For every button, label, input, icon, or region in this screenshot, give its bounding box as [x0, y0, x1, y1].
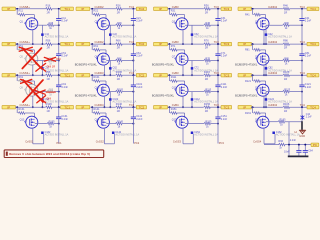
junction node at cap column r3c2: [132, 74, 134, 76]
svg-text:R141: R141: [94, 108, 101, 111]
svg-text:TC2: TC2: [139, 42, 145, 46]
ground bar: [288, 155, 309, 157]
wire net row 3 cell 2: [90, 74, 115, 76]
svg-text:Q16: Q16: [255, 119, 260, 122]
port IP3 (input, row 3): [2, 73, 16, 77]
svg-text:TC3: TC3: [214, 103, 220, 107]
transistor Q3 (N-MOSFET): [176, 18, 188, 30]
resistor R131 (gate): [18, 112, 25, 114]
transistor Q9 (N-MOSFET): [26, 84, 38, 96]
svg-text:2.2nF: 2.2nF: [306, 117, 312, 119]
svg-text:R75: R75: [205, 57, 210, 60]
port TC3 (output): [221, 105, 232, 109]
transistor Q2 (N-MOSFET): [97, 18, 109, 30]
junction node at cap column r1c2: [132, 8, 134, 10]
svg-text:PC3: PC3: [219, 141, 225, 145]
svg-text:R61: R61: [94, 45, 99, 48]
wire cap column to bottom: [132, 119, 134, 144]
svg-text:ACT/DO INSTALL 1A: ACT/DO INSTALL 1A: [268, 36, 292, 39]
svg-text:Q15: Q15: [172, 119, 177, 122]
svg-text:IP: IP: [7, 42, 10, 46]
svg-text:R105: R105: [117, 89, 124, 92]
red X over jumper J9 (DNI): [37, 96, 46, 103]
transistor Q1 (N-MOSFET): [26, 18, 38, 30]
resistor R115 value 1k (drain): [203, 90, 210, 93]
resistor R106 value 1R (series): [115, 74, 122, 77]
svg-text:2.2nF: 2.2nF: [136, 55, 143, 58]
wire net row 1 cell 1: [15, 8, 45, 10]
svg-text:PC2: PC2: [134, 141, 140, 145]
svg-text:R96: R96: [46, 70, 51, 74]
annotation note box (red): [4, 150, 104, 158]
junction cap column at next row: [217, 74, 219, 76]
svg-text:TC2: TC2: [129, 5, 135, 9]
resistor R166 value 1R (series): [283, 106, 290, 109]
svg-text:IP: IP: [159, 7, 162, 11]
junction marker column at next row: [265, 74, 267, 76]
resistor R155 value 1k (drain): [203, 122, 210, 125]
resistor R51 (gate): [18, 49, 25, 52]
jumper J2 (no-install marker square): [109, 33, 112, 36]
capacitor C121: [299, 84, 304, 86]
wire source of Q9: [32, 96, 34, 108]
junction cap column at next row: [132, 43, 134, 45]
svg-text:DNI: DNI: [47, 97, 52, 101]
transistor Q4 (N-MOSFET): [257, 18, 269, 30]
port TC1 (output): [61, 7, 74, 11]
junction source at next row: [32, 74, 34, 76]
junction node at cap column r4c3: [217, 106, 219, 108]
jumper J4 (no-install marker square): [265, 33, 268, 36]
jumper J5 (no-install marker square): [41, 67, 44, 70]
wire marker column: [191, 61, 193, 76]
svg-text:Q2: Q2: [95, 20, 99, 23]
junction node at cap column r2c3: [217, 43, 219, 45]
svg-text:Q14: Q14: [95, 119, 100, 122]
svg-text:TC3: TC3: [223, 7, 229, 11]
svg-text:CvSS2: CvSS2: [96, 139, 105, 143]
svg-text:CvSS3+: CvSS3+: [20, 71, 31, 75]
capacitor C11: [56, 18, 61, 20]
svg-text:ACT/DO INSTALL 1A: ACT/DO INSTALL 1A: [194, 134, 218, 137]
wire drain of Q12: [266, 91, 282, 93]
capacitor C131: [56, 116, 61, 118]
port IP (input of next cell): [238, 105, 252, 109]
wire capacitor column upper: [301, 9, 303, 19]
wire drain of Q6: [106, 60, 115, 62]
resistor R31 (gate): [170, 13, 177, 16]
svg-text:Q5: Q5: [20, 56, 24, 59]
junction node at cap column r2c4: [301, 43, 303, 45]
wire to capacitor column: [122, 60, 133, 62]
wire net row 2 cell 4: [251, 43, 283, 45]
svg-text:R36: R36: [204, 3, 209, 7]
svg-text:CvSS3: CvSS3: [173, 139, 182, 143]
wire capacitor column lower: [301, 87, 303, 108]
wire vertical from drain node to ground bar: [288, 122, 290, 157]
wire bottom stub: [104, 143, 114, 145]
capacitor C51: [56, 53, 61, 55]
wire net row 2 cell 3: [168, 43, 204, 45]
wire after series resistor R86: [290, 43, 307, 45]
capacitor C151: [215, 116, 220, 118]
svg-text:IP: IP: [243, 73, 246, 77]
wire net row 4 cell 2: [90, 106, 115, 108]
svg-text:R86: R86: [283, 39, 288, 43]
port TC3 (output): [221, 7, 232, 11]
wire to capacitor column: [54, 91, 59, 93]
junction node at input of cell r3c1: [16, 74, 18, 76]
resistor R16 value 1R (series): [45, 8, 52, 11]
wire to capacitor column: [289, 60, 302, 62]
jumper J15 (no-install marker square): [191, 132, 194, 135]
wire net row 2 cell 2: [90, 43, 115, 45]
junction marker column at next row: [109, 106, 111, 108]
svg-text:R15: R15: [49, 22, 54, 25]
junction bottom rail / vertical: [288, 144, 290, 146]
svg-text:IP: IP: [159, 73, 162, 77]
svg-text:1R: 1R: [117, 77, 120, 81]
wire after series resistor R26: [122, 8, 136, 10]
junction drain/cap node: [217, 123, 219, 125]
svg-text:1R: 1R: [205, 46, 208, 50]
svg-text:TC4: TC4: [300, 40, 306, 44]
svg-text:R25: R25: [117, 22, 122, 25]
wire source of Q12: [263, 96, 265, 108]
junction marker column at next row: [41, 106, 43, 108]
junction cap column at next row: [301, 43, 303, 45]
wire cap column to bottom: [217, 119, 219, 144]
resistor R46 value 1R (series): [283, 8, 290, 11]
junction node at cap column r1c4: [301, 8, 303, 10]
junction source at next row: [182, 106, 184, 108]
resistor R126 value 1R (series): [283, 74, 290, 77]
port TC2 (output): [136, 73, 146, 77]
wire marker column: [41, 92, 43, 108]
svg-text:R131: R131: [19, 108, 26, 111]
wire drain of Q14: [106, 123, 115, 125]
wire bottom stub: [33, 143, 44, 145]
junction marker column at next row: [265, 106, 267, 108]
junction source at next row: [263, 74, 265, 76]
wire capacitor column lower: [301, 56, 303, 76]
wire capacitor column lower: [58, 56, 60, 76]
port TC4 (output): [307, 42, 319, 46]
junction source at next row: [263, 106, 265, 108]
wire marker column: [109, 92, 111, 108]
wire gate to Q14: [100, 112, 106, 114]
resistor R111 (gate): [170, 80, 177, 82]
wire after series resistor R156: [210, 106, 221, 108]
svg-text:1A: 1A: [294, 131, 297, 134]
svg-text:1R: 1R: [46, 109, 49, 113]
svg-text:R21: R21: [94, 10, 99, 13]
wire capacitor column lower: [132, 20, 134, 44]
wire capacitor column lower: [58, 119, 60, 124]
junction drain/cap node: [58, 91, 60, 93]
svg-text:TC4: TC4: [300, 71, 306, 75]
svg-text:1R: 1R: [117, 109, 120, 113]
junction drain/cap node: [132, 24, 134, 26]
svg-text:BC/B03PS-4710KL: BC/B03PS-4710KL: [75, 62, 98, 66]
wire bottom rail row4 col4: [264, 144, 278, 146]
svg-text:R41: R41: [245, 13, 250, 16]
svg-text:2.2nF: 2.2nF: [305, 55, 312, 58]
port IP (input of next cell): [238, 42, 252, 46]
wire gate branch drop: [252, 9, 254, 15]
wire net row 2 cell 1: [15, 43, 45, 45]
svg-text:R111: R111: [171, 76, 177, 79]
wire gate branch drop: [168, 44, 170, 50]
wire source of Q11: [182, 96, 184, 108]
svg-text:BC/B03PS-4710KL: BC/B03PS-4710KL: [75, 93, 98, 97]
svg-text:IP: IP: [243, 105, 246, 109]
svg-text:R125: R125: [284, 89, 291, 92]
wire antenna stub below row4: [301, 107, 303, 121]
resistor R81 (gate): [253, 49, 260, 52]
junction node at input of cell r3c2: [91, 74, 93, 76]
resistor R141 (gate): [93, 112, 100, 114]
wire gate branch drop: [91, 9, 93, 15]
wire drain of Q8: [266, 60, 282, 62]
wire gate branch drop: [168, 107, 170, 113]
wire net row 1 cell 3: [168, 8, 204, 10]
wire to capacitor column: [210, 60, 218, 62]
wire gate branch drop: [91, 44, 93, 50]
junction node at input of cell r4c2: [91, 106, 93, 108]
junction marker column at next row: [191, 74, 193, 76]
junction source at next row: [263, 43, 265, 45]
jumper J9 (no-install marker square): [41, 98, 44, 101]
jumper J12 (no-install marker square): [265, 98, 268, 101]
svg-text:2.2nF: 2.2nF: [136, 19, 143, 22]
port IP (input of next cell): [76, 73, 90, 77]
junction marker column at next row: [109, 43, 111, 45]
wire to capacitor column: [122, 91, 133, 93]
svg-text:2.2nF: 2.2nF: [62, 86, 69, 89]
ground symbol GND (dark red): [299, 130, 305, 134]
svg-text:R31: R31: [171, 10, 176, 13]
junction drain/cap node: [132, 60, 134, 62]
junction marker column at next row: [191, 43, 193, 45]
wire after series resistor R166: [290, 106, 307, 108]
svg-text:R121: R121: [245, 80, 252, 83]
wire source of Q14: [103, 128, 105, 144]
resistor R85 value 1k (drain): [282, 59, 289, 62]
wire capacitor column upper: [58, 9, 60, 19]
wire drain of Q1: [35, 24, 47, 26]
wire after series resistor R56: [52, 43, 60, 45]
wire marker column: [265, 61, 267, 76]
wire capacitor column lower: [132, 56, 134, 76]
svg-text:R145: R145: [117, 121, 124, 124]
svg-text:1R: 1R: [46, 10, 49, 14]
jumper J10 (no-install marker square): [109, 98, 112, 101]
resistor R95 value 1k (drain): [47, 90, 54, 93]
wire capacitor column upper: [217, 9, 219, 19]
svg-text:TC4: TC4: [310, 42, 316, 46]
red X over resistor R55 (DNI): [44, 57, 55, 61]
wire source of Q2: [103, 29, 105, 44]
svg-text:2.2nF: 2.2nF: [62, 55, 69, 58]
transistor Q13 (N-MOSFET): [26, 116, 38, 128]
jumper J16 (no-install marker square): [272, 132, 275, 135]
svg-text:CvSS8+: CvSS8+: [20, 5, 31, 9]
svg-text:IP: IP: [159, 42, 162, 46]
svg-text:1R: 1R: [205, 10, 208, 14]
svg-text:CvSS2+: CvSS2+: [20, 40, 31, 44]
svg-text:10nF: 10nF: [284, 151, 290, 154]
transistor Q6 (N-MOSFET): [97, 53, 109, 65]
svg-text:2.2nF: 2.2nF: [221, 19, 228, 22]
svg-text:1R: 1R: [117, 46, 120, 50]
svg-text:R126: R126: [283, 70, 290, 74]
wire after series resistor R106: [122, 74, 136, 76]
resistor R96 value 1R (series): [45, 74, 52, 77]
wire after series resistor R36: [210, 8, 221, 10]
port TC4 (output): [307, 73, 319, 77]
red X over transistor Q5 (DNI): [22, 48, 41, 69]
wire marker column: [265, 92, 267, 108]
wire drain of Q10: [106, 91, 115, 93]
svg-text:TC3: TC3: [223, 105, 229, 109]
svg-text:R81: R81: [245, 49, 250, 52]
svg-text:Q11: Q11: [172, 87, 177, 90]
wire gate branch drop: [168, 9, 170, 15]
svg-text:R95: R95: [49, 89, 54, 92]
svg-text:2.2nF: 2.2nF: [136, 118, 143, 121]
junction source at next row: [32, 43, 34, 45]
transistor Q10 (N-MOSFET): [97, 84, 109, 96]
svg-text:1R: 1R: [284, 10, 287, 14]
wire capacitor column upper: [132, 107, 134, 117]
svg-text:CvDD2: CvDD2: [95, 40, 104, 44]
resistor R71 (gate): [170, 49, 177, 52]
svg-text:1R: 1R: [46, 46, 49, 50]
junction marker column at next row: [41, 43, 43, 45]
wire gate to Q15: [177, 112, 185, 114]
svg-text:TC2: TC2: [139, 73, 145, 77]
resistor R56 value 1R (series): [45, 43, 52, 46]
jumper J8 (no-install marker square): [265, 67, 268, 70]
resistor R101 (gate): [93, 80, 100, 82]
svg-text:2.2nF: 2.2nF: [290, 139, 297, 142]
svg-text:TC1: TC1: [64, 7, 70, 11]
wire drain of Q4: [266, 24, 282, 26]
wire gate branch drop: [252, 75, 254, 81]
junction node at input of cell r4c1: [16, 106, 18, 108]
junction node at cap column r3c4: [301, 74, 303, 76]
port IP (input of next cell): [154, 105, 168, 109]
junction source at next row: [103, 74, 105, 76]
wire source of Q6: [103, 65, 105, 76]
wire to capacitor column: [122, 123, 133, 125]
svg-text:R161: R161: [245, 112, 252, 115]
svg-text:CvDD4: CvDD4: [268, 5, 277, 9]
resistor R136 value 1R (series): [45, 106, 52, 109]
wire net row 3 cell 3: [168, 74, 204, 76]
resistor R36 value 1R (series): [203, 8, 210, 11]
port TC2 (output): [136, 105, 146, 109]
svg-text:R85: R85: [284, 57, 289, 60]
svg-text:1R: 1R: [284, 77, 287, 81]
svg-text:TC2: TC2: [129, 40, 135, 44]
wire capacitor column upper: [301, 44, 303, 54]
junction node at cap column r1c3: [217, 8, 219, 10]
transistor Q12 (N-MOSFET): [257, 84, 269, 96]
node marker star TP1: [300, 115, 304, 120]
red X over gate resistor R51 (DNI): [19, 47, 32, 51]
wire net row 1 cell 2: [90, 8, 115, 10]
junction drain/cap node: [217, 24, 219, 26]
wire source of Q5: [32, 65, 34, 76]
svg-text:R56: R56: [46, 39, 51, 43]
svg-text:TC1: TC1: [64, 73, 70, 77]
wire gate to Q16: [260, 112, 265, 114]
junction source at next row: [103, 43, 105, 45]
wire capacitor column upper: [132, 75, 134, 85]
resistor R161 (gate): [253, 112, 260, 114]
junction marker column at next row: [41, 74, 43, 76]
resistor R121 (gate): [253, 80, 260, 82]
transistor Q7 (N-MOSFET): [176, 53, 188, 65]
svg-text:R71: R71: [171, 45, 176, 48]
svg-text:2.2nF: 2.2nF: [221, 86, 228, 89]
svg-text:TC1: TC1: [64, 105, 70, 109]
svg-text:CvB3: CvB3: [172, 40, 179, 44]
capacitor C164: [304, 145, 306, 151]
wire capacitor column upper: [132, 9, 134, 19]
wire capacitor column upper: [217, 75, 219, 85]
svg-text:CvDD4: CvDD4: [268, 71, 277, 75]
jumper J3 (no-install marker square): [191, 33, 194, 36]
junction cap column at next row: [301, 106, 303, 108]
transistor Q5 (N-MOSFET): [26, 53, 38, 65]
resistor R15 value 1k (drain): [47, 24, 54, 27]
svg-text:DNI: DNI: [56, 57, 61, 61]
svg-text:1R: 1R: [46, 77, 49, 81]
wire source of Q4: [263, 29, 265, 44]
port IP4 (input, row 4): [2, 105, 16, 109]
junction cap column at next row: [301, 74, 303, 76]
wire capacitor column lower: [217, 119, 219, 124]
junction source at next row: [103, 106, 105, 108]
resistor R156 value 1R (series): [203, 106, 210, 109]
jumper J1 (no-install marker square): [41, 33, 44, 36]
junction node at input of cell r2c4: [252, 43, 254, 45]
svg-text:DNI 1R: DNI 1R: [47, 64, 56, 68]
svg-text:ACT/DO INSTALL 1A: ACT/DO INSTALL 1A: [276, 134, 300, 137]
wire cap column to bottom: [58, 119, 60, 144]
port TC4 (output): [307, 7, 319, 11]
wire capacitor column lower: [132, 119, 134, 124]
wire capacitor column lower: [132, 87, 134, 108]
svg-text:TC3: TC3: [223, 73, 229, 77]
port IP (input of next cell): [238, 7, 252, 11]
wire drain of Q2: [106, 24, 115, 26]
junction source at next row: [32, 106, 34, 108]
junction drain/cap node: [58, 60, 60, 62]
wire net row 4 cell 4: [251, 106, 283, 108]
svg-text:R91: R91: [19, 76, 24, 79]
capacitor C41: [299, 18, 304, 20]
wire bottom rail to port: [285, 144, 311, 146]
svg-text:CvDD4: CvDD4: [268, 103, 277, 107]
jumper J7 (no-install marker square): [191, 67, 194, 70]
wire after series resistor R126: [290, 74, 307, 76]
svg-text:R116: R116: [204, 70, 211, 74]
junction node at input of cell r4c4: [252, 106, 254, 108]
